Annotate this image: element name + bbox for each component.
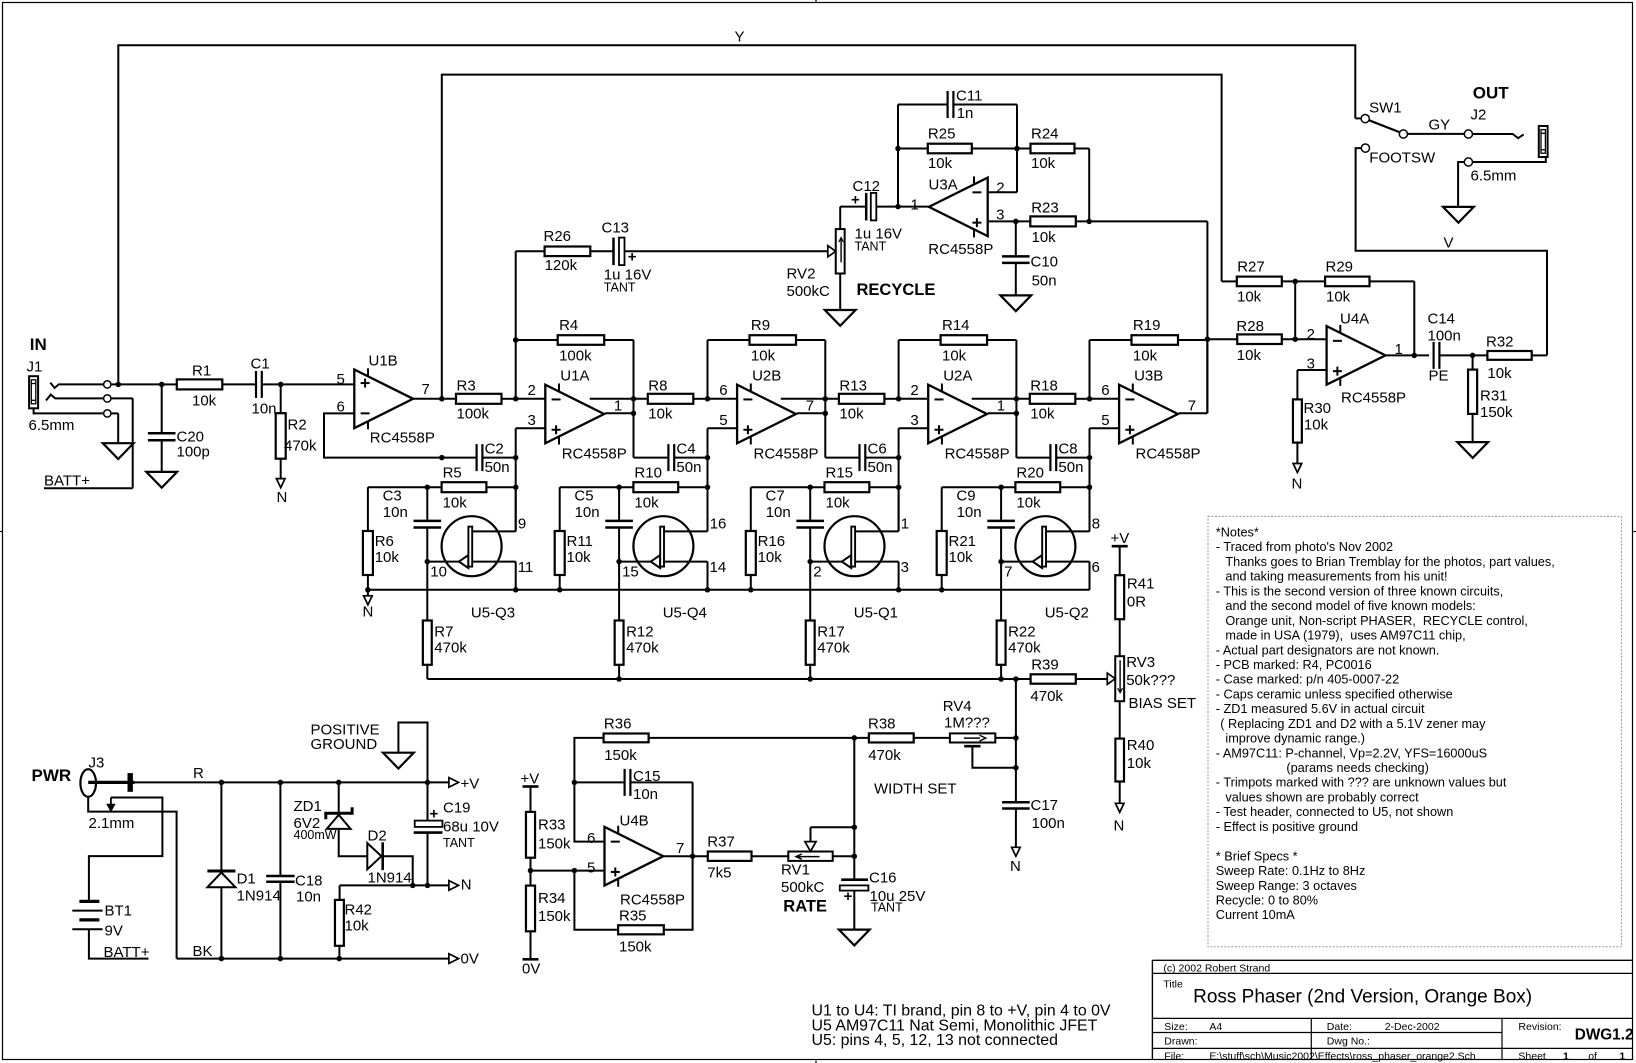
- svg-text:10k: 10k: [1032, 229, 1057, 246]
- +V rail arrow: [449, 778, 459, 788]
- svg-text:400mW: 400mW: [294, 828, 337, 842]
- wire R8 to op-amp: [693, 398, 707, 400]
- svg-text:470k: 470k: [284, 438, 317, 455]
- svg-text:FOOTSW: FOOTSW: [1369, 149, 1436, 166]
- svg-text:values shown are probably corr: values shown are probably correct: [1225, 790, 1419, 804]
- svg-text:100n: 100n: [1428, 328, 1461, 345]
- junction R42 bottom: [336, 956, 342, 962]
- svg-text:10n: 10n: [252, 401, 277, 418]
- svg-text:470k: 470k: [1008, 639, 1041, 656]
- svg-text:- ZD1 measured 5.6V in actual: - ZD1 measured 5.6V in actual circuit: [1216, 702, 1425, 716]
- resistor R12 470k to LFO bus: [618, 562, 620, 621]
- svg-text:U2A: U2A: [943, 368, 972, 385]
- ground at C16: [839, 930, 870, 946]
- wire output column: [1015, 340, 1017, 458]
- svg-text:and taking measurements from h: and taking measurements from his unit!: [1225, 570, 1447, 584]
- svg-text:C13: C13: [602, 220, 630, 237]
- svg-text:1: 1: [997, 397, 1005, 414]
- junction source to bottom rail: [896, 587, 902, 593]
- wire R29 right column to output: [1413, 281, 1415, 355]
- svg-text:C11: C11: [956, 87, 982, 104]
- svg-text:1N914: 1N914: [237, 888, 281, 905]
- wire R3 to op-amp: [502, 398, 516, 400]
- junction C18 top: [278, 780, 284, 786]
- svg-text:10n: 10n: [383, 504, 408, 521]
- resistor R11 10k: [559, 487, 561, 531]
- svg-text:+V: +V: [521, 771, 540, 788]
- svg-text:2.1mm: 2.1mm: [89, 815, 135, 832]
- junction R35 column tap: [572, 868, 578, 874]
- jack J1 sleeve contact: [34, 408, 103, 413]
- svg-text:RC4558P: RC4558P: [562, 445, 627, 462]
- svg-text:10k: 10k: [1487, 365, 1512, 382]
- svg-text:68u 10V: 68u 10V: [443, 819, 499, 836]
- svg-text:R35: R35: [619, 907, 647, 924]
- connector J1 IN jack: [29, 376, 38, 408]
- wire R37 to RV1: [752, 855, 789, 857]
- svg-text:A4: A4: [1209, 1021, 1222, 1033]
- wire U4A pin3 to R30: [1297, 369, 1326, 371]
- svg-text:R20: R20: [1016, 465, 1044, 482]
- svg-text:R14: R14: [942, 317, 970, 334]
- svg-text:Thanks goes to Brian Tremblay: Thanks goes to Brian Tremblay for the ph…: [1225, 555, 1554, 569]
- svg-text:U4B: U4B: [620, 813, 649, 830]
- svg-text:0V: 0V: [522, 961, 540, 978]
- svg-text:150k: 150k: [604, 747, 637, 764]
- svg-text:U5-Q3: U5-Q3: [471, 604, 515, 621]
- svg-text:C7: C7: [766, 487, 785, 504]
- wire RV2 bottom to ground: [839, 274, 841, 311]
- svg-text:U5-Q4: U5-Q4: [663, 604, 707, 621]
- resistor R17 470k to LFO bus: [809, 562, 811, 621]
- capacitor C14 100n output: [1432, 342, 1434, 369]
- resistor R1 10k: [177, 379, 223, 389]
- wire R1 to C1: [222, 383, 255, 385]
- wire feedback column R19 left: [1089, 340, 1091, 399]
- svg-text:R28: R28: [1236, 318, 1264, 335]
- svg-text:10: 10: [430, 563, 447, 580]
- svg-text:RC4558P: RC4558P: [1341, 390, 1406, 407]
- wire C14 to R32/R31: [1440, 354, 1487, 356]
- wire sleeve to ground: [112, 412, 119, 414]
- svg-text:C3: C3: [383, 487, 402, 504]
- svg-text:7: 7: [676, 840, 684, 857]
- junction C19 top: [425, 780, 431, 786]
- ground symbol at J1 sleeve: [103, 443, 134, 459]
- svg-text:3: 3: [910, 412, 918, 429]
- junction U3A feedback at output: [895, 204, 901, 210]
- svg-text:470k: 470k: [817, 639, 850, 656]
- resistor R18 10k stage input: [972, 398, 1030, 400]
- svg-text:R13: R13: [839, 377, 867, 394]
- svg-text:10k: 10k: [443, 495, 468, 512]
- wire D2 to N rail: [383, 856, 413, 885]
- svg-text:Recycle: 0 to 80%: Recycle: 0 to 80%: [1216, 894, 1318, 908]
- svg-text:10k: 10k: [634, 495, 659, 512]
- svg-text:R6: R6: [375, 533, 394, 550]
- svg-text:R19: R19: [1133, 317, 1161, 334]
- capacitor C6 50n: [858, 444, 860, 471]
- svg-text:RECYCLE: RECYCLE: [857, 281, 936, 299]
- svg-text:R41: R41: [1127, 575, 1155, 592]
- wire R36 feedback loop: [574, 738, 604, 842]
- capacitor C16 10u 25V TANT polarized: [841, 878, 868, 881]
- junction output/feedback: [690, 853, 696, 859]
- svg-text:D1: D1: [237, 871, 256, 888]
- resistor R40 10k: [1115, 739, 1124, 782]
- capacitor C15 10n: [574, 781, 624, 783]
- junction R13 right / feedback: [896, 396, 902, 402]
- svg-text:- Effect is positive ground: - Effect is positive ground: [1216, 820, 1358, 834]
- svg-text:IN: IN: [30, 335, 47, 354]
- junction D1 bottom: [219, 956, 225, 962]
- junction D1 top: [219, 780, 225, 786]
- junction wiper row: [852, 824, 858, 830]
- wire drain column down to R20 row: [1089, 458, 1091, 532]
- svg-text:R18: R18: [1030, 377, 1058, 394]
- svg-text:TANT: TANT: [443, 836, 475, 850]
- JFET U5-Q3 phase element: [442, 516, 502, 576]
- junction C20 tap: [159, 382, 165, 388]
- switch SW1 blade: [1369, 120, 1400, 132]
- svg-text:PWR: PWR: [32, 766, 72, 785]
- wire pin3 column stage 3: [898, 428, 900, 457]
- svg-text:RV4: RV4: [943, 698, 972, 715]
- 0V rail arrow: [449, 954, 459, 964]
- wire R39 to RV3: [1076, 678, 1107, 680]
- wire footswitch to V net: [1356, 148, 1547, 355]
- svg-text:1: 1: [1563, 1051, 1569, 1063]
- svg-text:R4: R4: [559, 317, 578, 334]
- ground N at C17: [1012, 847, 1021, 856]
- svg-text:R33: R33: [538, 817, 566, 834]
- svg-text:C17: C17: [1031, 797, 1059, 814]
- trimpot RV2 500kC recycle: [836, 229, 845, 273]
- resistor R8 10k stage input: [590, 398, 648, 400]
- svg-text:BT1: BT1: [105, 903, 133, 920]
- junction R23/R24: [1086, 219, 1092, 225]
- capacitor C5 10n: [618, 487, 620, 521]
- junction C10 tap: [1013, 219, 1019, 225]
- svg-text:R8: R8: [648, 377, 667, 394]
- ground at J2 sleeve: [1443, 207, 1474, 223]
- svg-text:TANT: TANT: [604, 281, 636, 295]
- svg-text:ZD1: ZD1: [294, 798, 322, 815]
- wire pin3 column stage 2: [707, 428, 709, 457]
- svg-text:7k5: 7k5: [707, 864, 731, 881]
- svg-text:7: 7: [1188, 397, 1196, 414]
- svg-text:10k: 10k: [942, 347, 967, 364]
- wire R18 to op-amp: [1075, 398, 1089, 400]
- svg-text:Dwg No.:: Dwg No.:: [1327, 1036, 1370, 1048]
- svg-text:150k: 150k: [538, 836, 571, 853]
- junction C19 bottom: [425, 883, 431, 889]
- svg-text:2: 2: [528, 382, 536, 399]
- svg-text:R12: R12: [626, 623, 654, 640]
- svg-text:RC4558P: RC4558P: [1136, 445, 1201, 462]
- svg-text:470k: 470k: [1030, 688, 1063, 705]
- wire recycle node down to R19/R28 junction: [1206, 221, 1208, 413]
- svg-text:C10: C10: [1031, 254, 1059, 271]
- svg-text:GY: GY: [1429, 116, 1451, 133]
- resistor R31 150k to ground: [1472, 355, 1474, 369]
- resistor R13 10k stage input: [781, 398, 839, 400]
- jack J1 ring contact: [46, 395, 103, 401]
- wire C-row from U2A output column: [1016, 457, 1049, 459]
- junction ZD1 top: [336, 780, 342, 786]
- svg-text:7: 7: [1004, 563, 1012, 580]
- svg-text:R9: R9: [751, 317, 770, 334]
- wire feedback column R9 left: [707, 340, 709, 399]
- svg-text:10k: 10k: [567, 549, 592, 566]
- ground at R31: [1457, 442, 1488, 458]
- wire U4A output: [1386, 354, 1429, 356]
- svg-text:10n: 10n: [766, 504, 791, 521]
- wire R26 to C13: [590, 250, 613, 252]
- resistor R32 10k to V net: [1487, 351, 1531, 360]
- JFET U5-Q4 phase element: [633, 516, 693, 576]
- jack J3 sleeve path: [88, 797, 176, 959]
- capacitor C2 50n: [476, 444, 478, 471]
- svg-text:10k: 10k: [1127, 755, 1152, 772]
- svg-text:C4: C4: [676, 440, 695, 457]
- svg-text:- Actual part designators are: - Actual part designators are not known.: [1216, 643, 1440, 657]
- svg-text:- Trimpots marked with ??? are: - Trimpots marked with ??? are unknown v…: [1216, 776, 1507, 790]
- svg-text:10k: 10k: [648, 405, 673, 422]
- BK rail 0V: [177, 958, 449, 960]
- svg-text:6.5mm: 6.5mm: [1471, 168, 1517, 185]
- svg-text:9: 9: [518, 515, 526, 532]
- svg-text:R16: R16: [758, 533, 786, 550]
- resistor R29 10k feedback U4A: [1325, 277, 1369, 287]
- svg-text:(params needs checking): (params needs checking): [1286, 761, 1428, 775]
- svg-text:150k: 150k: [1480, 404, 1513, 421]
- svg-text:10k: 10k: [1237, 347, 1262, 364]
- svg-text:J3: J3: [89, 755, 105, 772]
- svg-text:10k: 10k: [826, 495, 851, 512]
- svg-text:R1: R1: [192, 363, 211, 380]
- svg-text:10k: 10k: [839, 405, 864, 422]
- resistor R28 10k wet mix: [1207, 338, 1237, 340]
- wire U1B output: [413, 398, 456, 400]
- resistor R26 120k: [545, 247, 591, 257]
- svg-text:C19: C19: [443, 800, 471, 817]
- title block frame: [1152, 959, 1633, 961]
- resistor R35 150k: [618, 925, 664, 934]
- resistor R20 10k: [942, 486, 1016, 488]
- LFO bias bus: [427, 678, 1030, 680]
- junction gate 15: [616, 559, 622, 565]
- svg-text:5: 5: [587, 860, 595, 877]
- svg-text:+: +: [844, 888, 853, 905]
- svg-text:470k: 470k: [434, 639, 467, 656]
- wire J3 pin to +V rail: [135, 781, 449, 783]
- wire R23 to R19/R28 node: [1076, 220, 1208, 222]
- junction R18 right / feedback: [1087, 396, 1093, 402]
- switch SW1 throw GY contact: [1399, 130, 1407, 138]
- resistor R25 10k feedback: [898, 148, 928, 150]
- svg-text:SW1: SW1: [1369, 100, 1402, 117]
- svg-text:R2: R2: [288, 417, 307, 434]
- jack J1 tip contact: [104, 381, 111, 388]
- svg-text:R24: R24: [1031, 125, 1059, 142]
- svg-text:R34: R34: [538, 890, 566, 907]
- junction gate 10: [425, 559, 431, 565]
- resistor R15 10k: [751, 486, 825, 488]
- wire ring to BATT+: [112, 397, 133, 399]
- svg-text:DWG1.2: DWG1.2: [1575, 1027, 1634, 1044]
- svg-text:+V: +V: [1111, 530, 1130, 547]
- junction source to bottom rail: [705, 587, 711, 593]
- capacitor C1 10n: [255, 371, 257, 398]
- svg-text:TANT: TANT: [871, 901, 903, 915]
- svg-text:BATT+: BATT+: [44, 473, 90, 490]
- svg-text:R32: R32: [1486, 334, 1514, 351]
- notes box frame: [1208, 516, 1621, 946]
- svg-text:6: 6: [719, 382, 727, 399]
- capacitor C10 50n: [1015, 221, 1017, 256]
- svg-text:10k: 10k: [1030, 405, 1055, 422]
- svg-text:R25: R25: [928, 125, 956, 142]
- wire drain column down to R10 row: [707, 458, 709, 532]
- capacitor C9 10n: [1000, 487, 1002, 521]
- resistor R3 100k stage input: [456, 394, 502, 404]
- resistor R21 10k: [941, 487, 943, 531]
- resistor R42 10k: [335, 900, 344, 946]
- svg-text:U4A: U4A: [1340, 311, 1369, 328]
- wire op-amp U3B output: [1179, 412, 1208, 414]
- wire C13 to RV2 wiper: [625, 250, 828, 252]
- diode D1 1N914: [220, 782, 222, 871]
- svg-text:R10: R10: [634, 465, 662, 482]
- resistor R23 10k: [1030, 216, 1076, 226]
- svg-text:*Notes*: *Notes*: [1216, 526, 1259, 540]
- svg-text:1N914: 1N914: [368, 870, 412, 887]
- capacitor C20 100p: [161, 384, 163, 433]
- svg-text:3: 3: [901, 559, 909, 576]
- svg-text:E:\stuff\sch\Music2002\Effects: E:\stuff\sch\Music2002\Effects\ross_phas…: [1209, 1051, 1476, 1063]
- wire RV4 right to width node: [995, 737, 1016, 739]
- svg-text:N: N: [363, 604, 374, 621]
- junction R16 to bottom rail: [748, 587, 754, 593]
- svg-text:50n: 50n: [485, 459, 510, 476]
- svg-text:10k: 10k: [375, 549, 400, 566]
- resistor R39 470k: [1031, 674, 1076, 683]
- svg-text:100k: 100k: [559, 347, 592, 364]
- svg-text:TANT: TANT: [855, 240, 887, 254]
- resistor R2 470k: [280, 384, 282, 413]
- svg-text:N: N: [461, 877, 472, 894]
- svg-text:Y: Y: [735, 29, 745, 46]
- wire net Y top bus: [118, 45, 1355, 384]
- op-amp U4A RC4558P output mixer: [1327, 326, 1386, 385]
- width set node column: [1015, 679, 1017, 802]
- junction output / R29: [1412, 353, 1418, 359]
- svg-text:R27: R27: [1237, 259, 1265, 276]
- svg-text:R38: R38: [868, 715, 896, 732]
- svg-text:RC4558P: RC4558P: [928, 241, 993, 258]
- svg-text:D2: D2: [368, 828, 387, 845]
- svg-text:C1: C1: [251, 356, 270, 373]
- junction R3 right / feedback: [513, 396, 519, 402]
- svg-text:C15: C15: [633, 768, 661, 785]
- svg-text:6: 6: [1101, 382, 1109, 399]
- junction R27/R29/pin2 column: [1292, 279, 1298, 285]
- svg-text:U2B: U2B: [752, 368, 781, 385]
- junction C row / drain column: [705, 455, 711, 461]
- svg-text:120k: 120k: [545, 257, 578, 274]
- svg-text:Sweep Rate: 0.1Hz to 8Hz: Sweep Rate: 0.1Hz to 8Hz: [1216, 864, 1366, 878]
- svg-text:10k: 10k: [192, 393, 217, 410]
- svg-text:0V: 0V: [461, 950, 479, 967]
- wire GY to J2 tip: [1408, 133, 1465, 135]
- resistor R27 10k dry mix: [1222, 280, 1237, 282]
- wire RV1 right to C16 column: [833, 855, 855, 857]
- wire pin3 column stage 4: [1089, 428, 1091, 457]
- svg-text:R5: R5: [443, 465, 462, 482]
- wire feedback column R4 left: [515, 340, 517, 399]
- capacitor C8 50n: [1049, 444, 1051, 471]
- svg-text:J2: J2: [1471, 107, 1487, 124]
- svg-text:R22: R22: [1008, 623, 1036, 640]
- svg-text:470k: 470k: [868, 747, 901, 764]
- svg-text:of: of: [1588, 1051, 1597, 1063]
- svg-text:6: 6: [1092, 559, 1100, 576]
- svg-text:10k: 10k: [345, 918, 370, 935]
- junction 470k to LFO bus: [616, 676, 622, 682]
- svg-text:500kC: 500kC: [781, 879, 825, 896]
- wire BT1 to BATT+ stub: [89, 929, 149, 958]
- junction C18 bottom: [278, 956, 284, 962]
- junction 470k to LFO bus: [998, 676, 1004, 682]
- capacitor C19 68u 10V TANT polarized: [427, 782, 429, 820]
- svg-text:V: V: [1444, 235, 1454, 252]
- svg-text:R39: R39: [1031, 657, 1059, 674]
- resistor R34 150k: [530, 871, 532, 886]
- wire R32 to V column: [1532, 354, 1547, 356]
- svg-text:C16: C16: [869, 870, 897, 887]
- resistor R33 150k: [526, 812, 535, 858]
- svg-text:16: 16: [710, 515, 727, 532]
- junction C15 left: [572, 780, 578, 786]
- svg-text:made in USA (1979), uses AM97: made in USA (1979), uses AM97C11 chip,: [1225, 629, 1465, 643]
- svg-text:(c) 2002 Robert Strand: (c) 2002 Robert Strand: [1163, 962, 1270, 974]
- svg-text:- PCB marked: R4, PC0016: - PCB marked: R4, PC0016: [1216, 658, 1372, 672]
- svg-text:5: 5: [337, 371, 345, 388]
- svg-text:7: 7: [806, 397, 814, 414]
- junction gate 2: [807, 559, 813, 565]
- resistor R7 470k to LFO bus: [426, 562, 428, 621]
- capacitor C17 100n: [1002, 801, 1030, 804]
- svg-text:+: +: [430, 806, 439, 823]
- junction C row / drain column: [1087, 455, 1093, 461]
- svg-text:10k: 10k: [949, 549, 974, 566]
- svg-text:100p: 100p: [177, 444, 210, 461]
- wire dry-signal bus (U1B out to R27): [442, 75, 1222, 400]
- wire RV3 bottom to R40: [1119, 701, 1121, 738]
- svg-text:C6: C6: [868, 440, 887, 457]
- svg-text:OUT: OUT: [1473, 83, 1510, 102]
- svg-text:50k???: 50k???: [1126, 672, 1175, 689]
- svg-text:R23: R23: [1031, 199, 1059, 216]
- svg-text:5: 5: [1101, 412, 1109, 429]
- svg-text:N: N: [1114, 818, 1125, 835]
- svg-text:+V: +V: [461, 775, 480, 792]
- svg-text:RC4558P: RC4558P: [945, 445, 1010, 462]
- svg-text:1: 1: [901, 515, 909, 532]
- op-amp U1A RC4558P phase stage: [545, 385, 604, 444]
- wire pin3 column stage 1: [515, 428, 517, 457]
